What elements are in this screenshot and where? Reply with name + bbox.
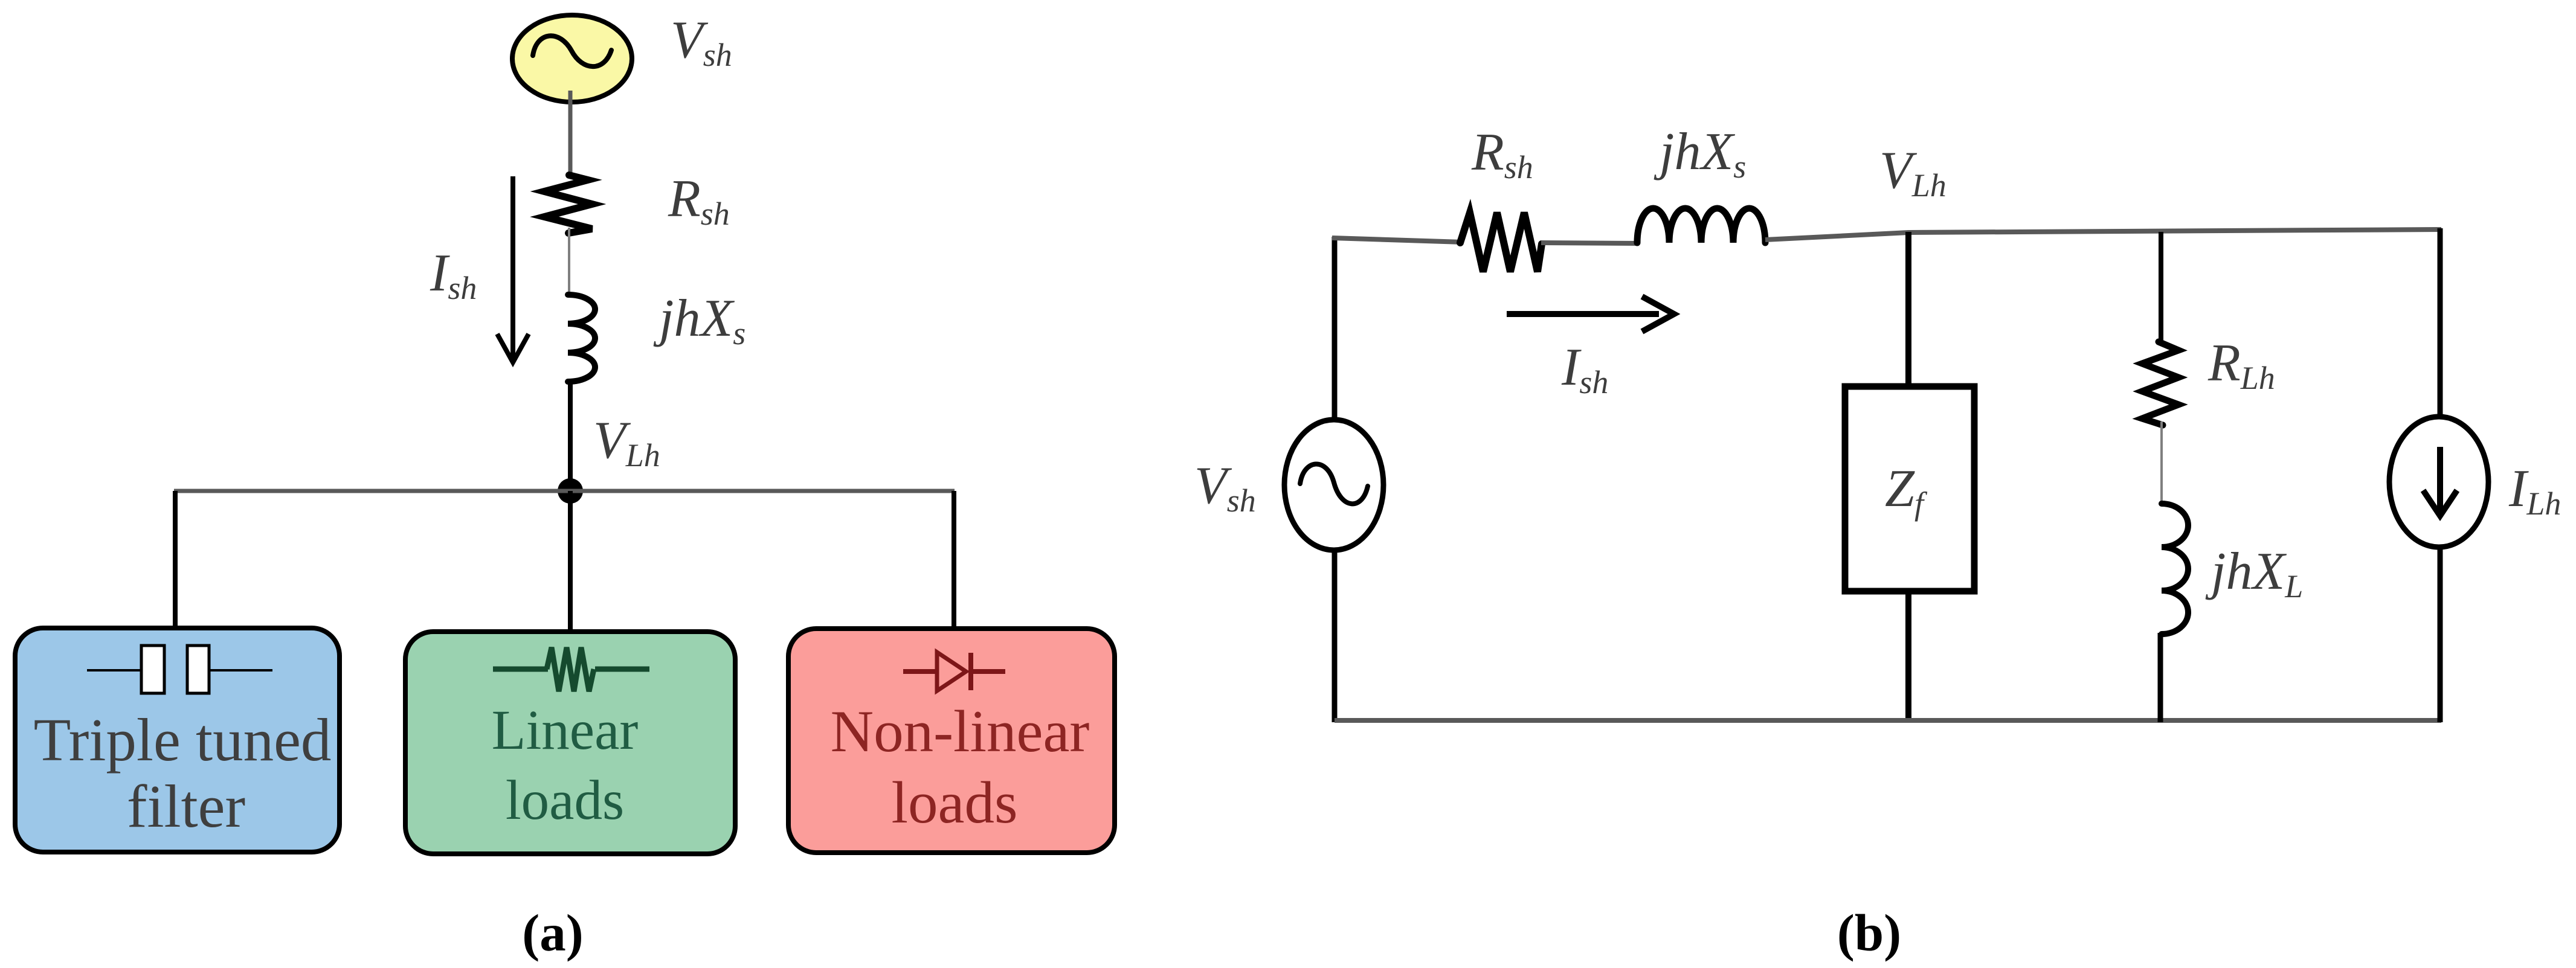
left vertical wire top (b) (1332, 237, 1338, 421)
top wire segment 1 (b) (1332, 238, 1462, 242)
resistor symbol (green) (493, 667, 548, 672)
node VLh dot (a) (558, 478, 583, 504)
wire Zf box to bottom wire (1905, 589, 1911, 722)
box Triple tuned filter (15, 628, 340, 852)
current arrow Ish (a) (497, 176, 529, 362)
svg-text:Non-linear: Non-linear (831, 699, 1090, 764)
svg-text:filter: filter (127, 772, 245, 840)
wire bus to filter box (173, 491, 178, 630)
bottom wire (b) (1335, 718, 2441, 723)
box Non-linear loads (788, 629, 1115, 853)
left vertical wire bottom (b) (1332, 549, 1338, 722)
inductor jhXs (a) (568, 295, 595, 382)
RLh branch: top wire to resistor (2159, 232, 2163, 345)
svg-text:Linear: Linear (492, 699, 639, 761)
svg-text:jhXs: jhXs (1653, 123, 1746, 185)
wire resistor to inductor (568, 228, 570, 296)
resistor Rsh (a) (544, 175, 592, 233)
right vertical wire bottom (b) (2438, 546, 2443, 722)
svg-text:(a): (a) (522, 903, 583, 962)
inductor jhXL (2162, 504, 2188, 634)
right vertical wire top (b) (2438, 228, 2443, 419)
svg-text:loads: loads (892, 770, 1018, 836)
wire node to linear loads box (568, 491, 573, 635)
svg-text:Triple tuned: Triple tuned (34, 706, 332, 774)
diode symbol (dark red) (903, 669, 937, 674)
current source ILh (2389, 417, 2488, 547)
top wire segment 3 (b) (1765, 229, 2441, 240)
box Linear loads (405, 632, 735, 854)
svg-text:(b): (b) (1837, 903, 1901, 962)
sine glyph (b) (1300, 464, 1368, 504)
thin wire resistor to inductor (2160, 421, 2163, 504)
wire bus to non-linear loads box (952, 491, 956, 631)
resistor Rsh (b) (1460, 213, 1542, 272)
wire source to resistor (568, 91, 573, 178)
top wire segment 2 (b) (1541, 243, 1638, 243)
current arrow Ish (b) (1507, 296, 1674, 332)
capacitor symbol (87, 669, 143, 672)
svg-text:jhXs: jhXs (653, 289, 745, 351)
AC source Vsh (a) (512, 15, 632, 102)
wire inductor to bottom wire (2158, 633, 2163, 722)
resistor RLh (2142, 342, 2178, 425)
inductor jhXs (b) (1637, 208, 1765, 243)
impedance Zf box (1845, 386, 1974, 591)
AC source Vsh (b) (1284, 420, 1383, 550)
svg-text:loads: loads (506, 769, 624, 832)
wire inductor to node (568, 382, 573, 491)
bus wire (a) (174, 489, 955, 493)
wire VLh node to Zf box (1905, 232, 1911, 389)
